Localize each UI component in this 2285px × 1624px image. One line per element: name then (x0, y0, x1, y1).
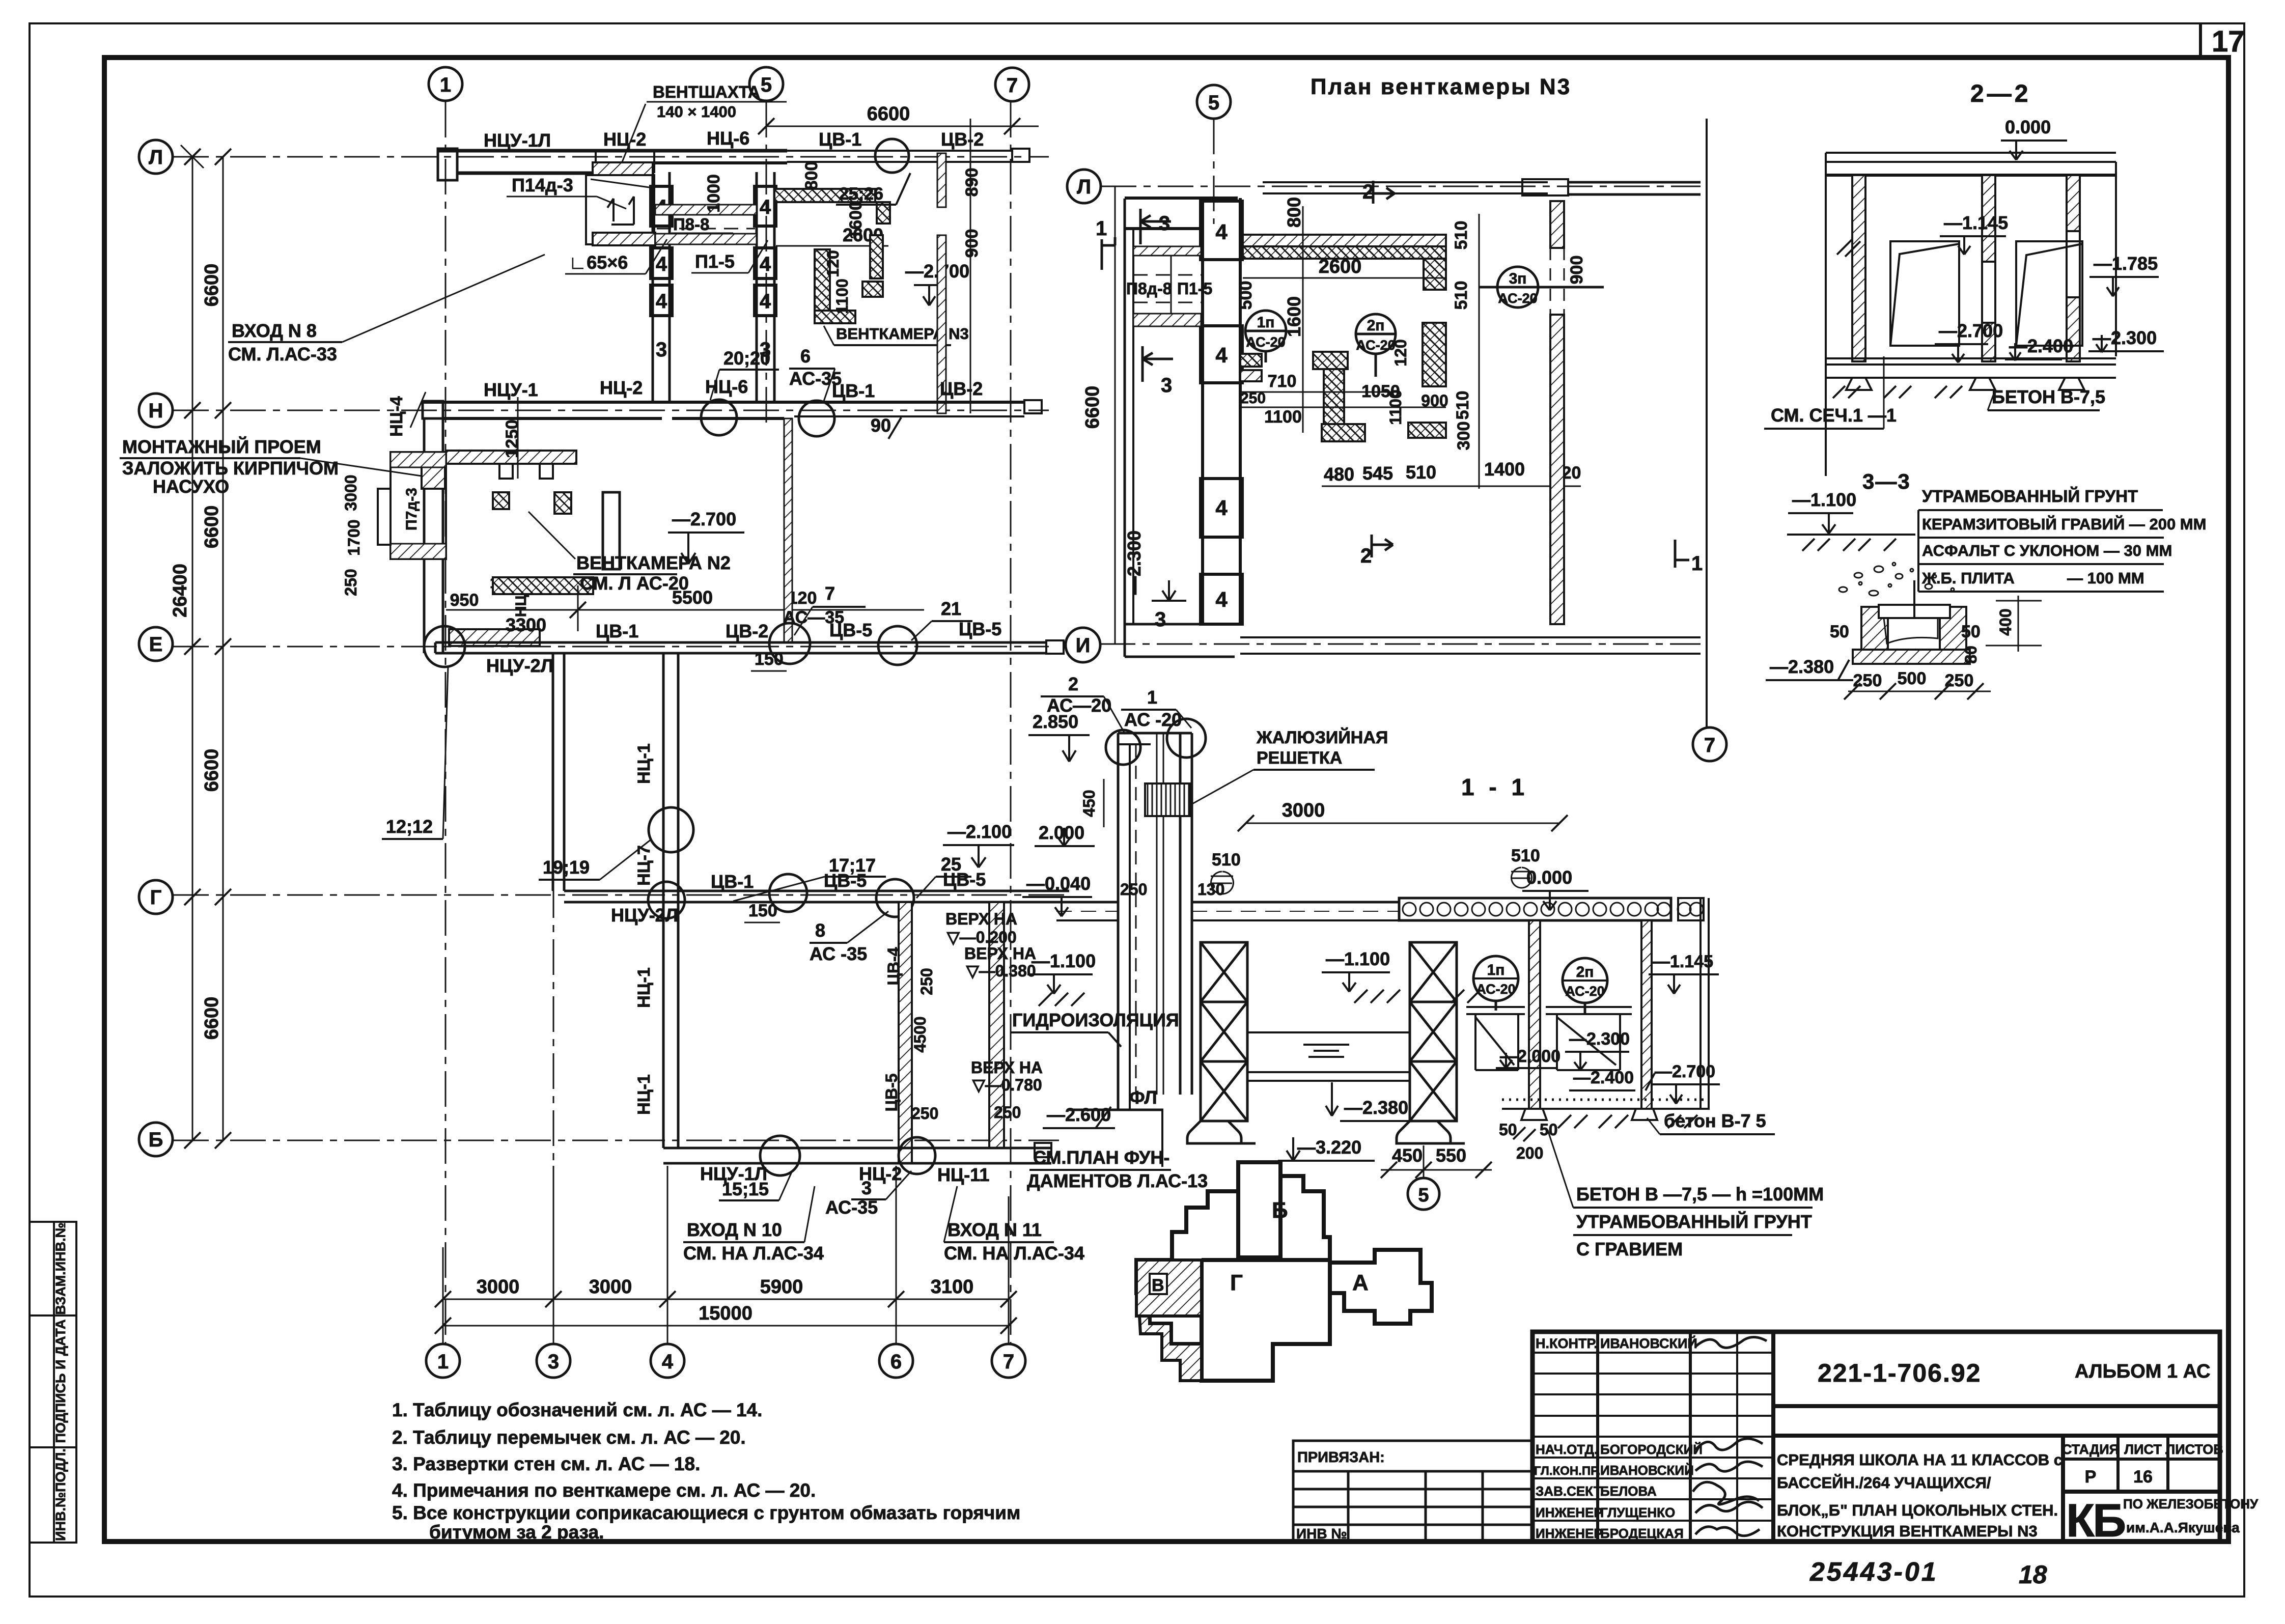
2 section marks (1373, 181, 1395, 204)
bottom dim row (1322, 486, 1581, 487)
svg-text:2—2: 2—2 (1970, 80, 2031, 107)
svg-text:19;19: 19;19 (543, 857, 590, 878)
svg-text:—2.400: —2.400 (1573, 1068, 1634, 1087)
ventkamera2 cluster (446, 451, 576, 464)
svg-text:80: 80 (1962, 646, 1980, 664)
svg-text:—3.220: —3.220 (1297, 1137, 1361, 1158)
svg-text:710: 710 (1268, 372, 1297, 391)
3000 dim (1246, 823, 1559, 824)
wall column with pilasters (1201, 198, 1242, 624)
svg-text:6600: 6600 (201, 506, 222, 549)
louver grille (1145, 783, 1190, 816)
svg-text:500: 500 (1898, 669, 1927, 688)
svg-text:200: 200 (1516, 1144, 1543, 1162)
svg-text:250: 250 (1120, 880, 1147, 899)
svg-text:5: 5 (761, 74, 772, 96)
svg-text:550: 550 (1436, 1145, 1466, 1166)
SECTION 2-2 (1764, 80, 2164, 476)
svg-text:900: 900 (1421, 391, 1448, 410)
svg-text:Г: Г (150, 886, 162, 909)
svg-text:МОНТАЖНЫЙ ПРОЕМ: МОНТАЖНЫЙ ПРОЕМ (122, 436, 321, 457)
svg-text:3: 3 (861, 1178, 872, 1198)
svg-text:НЦУ-1Л: НЦУ-1Л (484, 130, 551, 151)
TITLE BLOCK (1293, 1332, 2259, 1589)
svg-text:—2.700: —2.700 (1939, 320, 2003, 341)
svg-text:6: 6 (800, 346, 811, 367)
п circles (1245, 267, 1604, 354)
foundation detail (1853, 580, 1970, 664)
svg-text:АС—35: АС—35 (783, 608, 844, 627)
svg-text:1100: 1100 (1386, 389, 1405, 425)
svg-text:ВХОД N 10: ВХОД N 10 (687, 1219, 782, 1240)
svg-text:130: 130 (1197, 880, 1224, 899)
axis grid dash-dot lines (173, 102, 1069, 1344)
svg-text:3: 3 (1161, 374, 1172, 397)
ventkamera3 walls cluster (815, 249, 830, 311)
svg-text:16: 16 (2133, 1467, 2153, 1487)
svg-text:ВЕНТШАХТА: ВЕНТШАХТА (653, 82, 760, 101)
svg-text:—2.300: —2.300 (1569, 1029, 1630, 1049)
right wall (1550, 201, 1564, 248)
svg-text:СТАДИЯ: СТАДИЯ (2062, 1442, 2119, 1457)
svg-text:3300: 3300 (506, 614, 546, 635)
svg-text:510: 510 (1452, 221, 1471, 250)
bottom room walls (662, 902, 665, 1148)
svg-text:2. Таблицу перемычек см. л.: 2. Таблицу перемычек см. л. АС — 20. (392, 1427, 746, 1448)
wall row Е (435, 640, 1064, 654)
svg-text:—2.700: —2.700 (1655, 1062, 1715, 1081)
building outline Б block (1136, 1162, 1330, 1381)
svg-text:2: 2 (1068, 674, 1078, 694)
svg-text:510: 510 (1406, 462, 1436, 483)
svg-text:26400: 26400 (170, 564, 191, 618)
svg-text:50: 50 (1961, 622, 1981, 641)
svg-text:П14д-3: П14д-3 (512, 175, 573, 195)
svg-text:ЦВ-2: ЦВ-2 (941, 129, 984, 150)
left boundary wall (1124, 199, 1126, 657)
svg-text:НЦУ-2Л: НЦУ-2Л (611, 905, 678, 926)
SECTION 1-1 (1022, 674, 1824, 1259)
svg-text:ВЕРХ НА: ВЕРХ НА (971, 1058, 1043, 1077)
wall row Н (423, 400, 1042, 418)
svg-text:С ГРАВИЕМ: С ГРАВИЕМ (1576, 1239, 1683, 1259)
columns (1852, 175, 1865, 361)
svg-text:1: 1 (1147, 687, 1157, 708)
svg-text:НЦ-11: НЦ-11 (937, 1164, 989, 1185)
signatures squiggles (1693, 1337, 1767, 1535)
floor slabs (1056, 898, 1704, 920)
svg-text:25443-01: 25443-01 (1809, 1557, 1938, 1587)
А wing (1330, 1250, 1432, 1324)
svg-text:Л: Л (1077, 176, 1091, 198)
svg-text:—2.400: —2.400 (2009, 335, 2073, 356)
big double band (1243, 235, 1446, 246)
KEY PLAN (1136, 1162, 1432, 1381)
svg-text:ВЕРХ НА: ВЕРХ НА (964, 944, 1036, 963)
svg-text:5500: 5500 (672, 587, 713, 608)
svg-text:3: 3 (548, 1351, 559, 1373)
svg-text:В: В (1152, 1276, 1164, 1295)
svg-text:Б: Б (149, 1129, 163, 1151)
vertical dim 6600 (1114, 186, 1116, 644)
svg-text:50: 50 (1830, 622, 1849, 641)
svg-text:—1.100: —1.100 (1032, 950, 1096, 971)
svg-text:НЦ-1: НЦ-1 (634, 967, 654, 1008)
svg-text:17: 17 (2212, 25, 2245, 58)
svg-text:400: 400 (1996, 608, 2015, 635)
svg-text:2п: 2п (1576, 964, 1594, 981)
svg-text:АЛЬБОМ 1 АС: АЛЬБОМ 1 АС (2075, 1361, 2211, 1382)
svg-text:ЦВ-2: ЦВ-2 (726, 621, 768, 641)
svg-text:1п: 1п (1257, 314, 1275, 331)
svg-text:— 100 ММ: — 100 ММ (2067, 569, 2144, 587)
svg-text:6600: 6600 (1082, 386, 1103, 429)
svg-text:∟65×6: ∟65×6 (569, 252, 628, 273)
svg-text:1: 1 (1691, 552, 1703, 575)
dims under ventkamera2 (446, 609, 924, 611)
svg-text:120: 120 (1391, 339, 1410, 366)
svg-text:ГЛУЩЕНКО: ГЛУЩЕНКО (1600, 1505, 1675, 1520)
svg-text:—2.380: —2.380 (1770, 656, 1834, 677)
svg-text:СМ. СЕЧ.1 —1: СМ. СЕЧ.1 —1 (1771, 405, 1897, 426)
svg-text:—1.145: —1.145 (1944, 212, 2008, 233)
svg-text:4. Примечания по венткамере: 4. Примечания по венткамере см. л. АС — … (392, 1480, 816, 1501)
svg-text:▽—0.780: ▽—0.780 (972, 1076, 1042, 1094)
svg-text:АСФАЛЬТ С УКЛОНОМ — 30 М: АСФАЛЬТ С УКЛОНОМ — 30 ММ (1922, 542, 2172, 559)
svg-text:3000: 3000 (477, 1276, 520, 1298)
signature table rows (1532, 1352, 1773, 1354)
svg-text:ЗАЛОЖИТЬ КИРПИЧОМ: ЗАЛОЖИТЬ КИРПИЧОМ (122, 458, 339, 479)
svg-text:2: 2 (1360, 545, 1372, 567)
inner dims (1240, 391, 1395, 393)
svg-text:ИНЖЕНЕР: ИНЖЕНЕР (1536, 1505, 1603, 1520)
svg-text:120: 120 (824, 250, 842, 277)
svg-text:битумом за 2 раза.: битумом за 2 раза. (429, 1522, 604, 1543)
svg-text:УТРАМБОВАННЫЙ ГРУНТ: УТРАМБОВАННЫЙ ГРУНТ (1922, 486, 2138, 506)
svg-text:0.000: 0.000 (1526, 867, 1572, 888)
section marks left (1102, 209, 1173, 382)
svg-text:Н: Н (149, 400, 163, 422)
svg-text:250: 250 (911, 1104, 938, 1123)
axis lines (1100, 119, 1701, 644)
floor of tank room (1502, 1100, 1709, 1120)
tanks (1466, 1007, 1632, 1070)
svg-text:250: 250 (917, 968, 936, 995)
svg-text:Н.КОНТР.: Н.КОНТР. (1536, 1336, 1598, 1351)
scattered inner walls (493, 492, 509, 509)
svg-text:150: 150 (748, 901, 777, 920)
svg-text:—2.700: —2.700 (672, 509, 736, 529)
svg-text:ПО ЖЕЛЕЗОБЕТОНУ: ПО ЖЕЛЕЗОБЕТОНУ (2123, 1496, 2259, 1511)
right wall ЦВ-2 (937, 153, 946, 207)
svg-text:ЖАЛЮЗИЙНАЯ: ЖАЛЮЗИЙНАЯ (1256, 727, 1388, 747)
svg-text:4: 4 (760, 290, 771, 313)
svg-text:50: 50 (1540, 1121, 1558, 1139)
svg-text:6600: 6600 (201, 997, 222, 1040)
svg-text:СМ. НА Л.АС-34: СМ. НА Л.АС-34 (683, 1243, 824, 1264)
svg-text:2п: 2п (1367, 317, 1385, 334)
svg-text:—2.380: —2.380 (1344, 1097, 1408, 1118)
svg-text:7: 7 (825, 583, 835, 604)
svg-text:—0.040: —0.040 (1026, 873, 1091, 894)
page number box 17 (2199, 23, 2202, 58)
svg-text:4: 4 (662, 1351, 674, 1373)
svg-text:18: 18 (2019, 1560, 2047, 1589)
svg-text:4500: 4500 (911, 1016, 929, 1052)
svg-text:ИВАНОВСКИЙ: ИВАНОВСКИЙ (1600, 1335, 1697, 1351)
axis circles left (139, 140, 173, 1156)
svg-text:6600: 6600 (867, 103, 910, 125)
svg-text:НЦ-4: НЦ-4 (387, 396, 406, 437)
svg-text:НЦ-1: НЦ-1 (634, 743, 654, 784)
svg-text:АС-20: АС-20 (1246, 334, 1285, 350)
svg-text:НЦ-7: НЦ-7 (634, 845, 654, 886)
svg-text:90: 90 (871, 415, 891, 436)
svg-text:1: 1 (440, 74, 451, 96)
svg-text:АС-35: АС-35 (825, 1197, 878, 1218)
svg-text:1. Таблицу обозначений см. л.: 1. Таблицу обозначений см. л. АС — 14. (392, 1399, 762, 1420)
svg-text:140 × 1400: 140 × 1400 (657, 103, 736, 121)
svg-text:ВЕРХ НА: ВЕРХ НА (945, 910, 1017, 928)
duct shaft (1118, 733, 1192, 1110)
svg-text:800: 800 (1284, 197, 1304, 228)
svg-text:3. Развертки стен см. л. АС: 3. Развертки стен см. л. АС — 18. (392, 1453, 700, 1474)
svg-text:ВХОД N 11: ВХОД N 11 (948, 1219, 1042, 1240)
svg-text:ЦВ-5: ЦВ-5 (882, 1074, 901, 1112)
svg-text:480: 480 (1324, 464, 1354, 485)
svg-text:300: 300 (1454, 422, 1473, 451)
wall row Г (564, 891, 1069, 902)
svg-text:3: 3 (1159, 212, 1170, 235)
svg-text:План венткамеры N3: План венткамеры N3 (1311, 74, 1571, 99)
svg-text:КОНСТРУКЦИЯ ВЕНТКАМЕРЫ N3: КОНСТРУКЦИЯ ВЕНТКАМЕРЫ N3 (1777, 1522, 2038, 1540)
svg-text:—2.300: —2.300 (1124, 530, 1145, 595)
svg-text:3: 3 (656, 339, 667, 361)
svg-text:890: 890 (962, 168, 982, 197)
left stamp strip (31, 1222, 76, 1543)
svg-text:ВХОД N 8: ВХОД N 8 (232, 320, 317, 341)
svg-text:НЦ-2: НЦ-2 (603, 129, 646, 150)
svg-text:ИНВ.№ПОДЛ.: ИНВ.№ПОДЛ. (53, 1448, 68, 1541)
svg-text:250: 250 (342, 569, 360, 596)
svg-text:4: 4 (1215, 343, 1228, 367)
svg-text:1: 1 (437, 1351, 449, 1373)
svg-text:▽—0.380: ▽—0.380 (966, 962, 1036, 980)
svg-text:АС -20: АС -20 (1124, 709, 1182, 730)
svg-text:НЦУ-1: НЦУ-1 (484, 379, 538, 400)
svg-text:12;12: 12;12 (386, 816, 433, 837)
top wall band (1125, 179, 1701, 229)
small room П7д-3 (391, 452, 446, 559)
dots sprinkle (1839, 563, 1954, 596)
wall vertical from Н to Е at x1540 (784, 418, 792, 642)
svg-text:50: 50 (1499, 1121, 1517, 1139)
left vertical dimension lines (181, 145, 223, 1140)
svg-text:ВЗАМ.ИНВ.№: ВЗАМ.ИНВ.№ (53, 1222, 68, 1315)
svg-text:НАЧ.ОТД.: НАЧ.ОТД. (1536, 1442, 1598, 1457)
svg-text:4: 4 (656, 290, 667, 313)
svg-text:4: 4 (1215, 496, 1228, 520)
axis circles bottom (426, 1344, 1025, 1378)
svg-text:ФЛ: ФЛ (1129, 1087, 1157, 1108)
svg-text:3: 3 (1155, 608, 1166, 631)
svg-text:ГЛ.КОН.ПР.: ГЛ.КОН.ПР. (1534, 1464, 1600, 1478)
svg-text:1250: 1250 (503, 419, 522, 458)
svg-text:2600: 2600 (1319, 256, 1362, 277)
main area lines (1773, 1404, 2220, 1408)
basin between columns (1247, 1032, 1410, 1081)
bottom dimension lines (443, 1166, 1009, 1344)
svg-text:900: 900 (1567, 256, 1586, 285)
svg-text:АС-20: АС-20 (1498, 291, 1537, 306)
svg-text:Л: Л (149, 146, 163, 169)
svg-text:П8д-8: П8д-8 (1126, 279, 1172, 298)
svg-text:6: 6 (890, 1351, 902, 1373)
svg-text:ДАМЕНТОВ Л.АС-13: ДАМЕНТОВ Л.АС-13 (1027, 1170, 1208, 1191)
wall B x1486-1521 (756, 172, 758, 402)
svg-text:3000: 3000 (342, 474, 360, 511)
foundation slab ФЛ (1069, 1109, 1163, 1111)
svg-text:АС -35: АС -35 (810, 943, 867, 964)
svg-text:Р: Р (2085, 1467, 2097, 1487)
Г inner rectangle (1202, 1258, 1330, 1262)
svg-text:3—3: 3—3 (1862, 469, 1911, 493)
left wall Н-Е and montage opening (423, 418, 426, 653)
svg-text:им.А.А.Якушева: им.А.А.Якушева (2126, 1520, 2240, 1535)
svg-text:НАСУХО: НАСУХО (153, 476, 229, 497)
svg-text:5. Все конструкции соприкаса: 5. Все конструкции соприкасающиеся с гру… (392, 1502, 1020, 1523)
svg-text:НЦ-2: НЦ-2 (600, 377, 643, 398)
far right marks (1675, 540, 1689, 568)
svg-text:6600: 6600 (201, 749, 222, 792)
svg-text:ЦВ-1: ЦВ-1 (596, 621, 638, 641)
svg-text:950: 950 (450, 591, 479, 610)
right part: tank room walls (1529, 898, 1709, 1110)
VENT PLAN N3 (1066, 74, 1726, 761)
svg-text:АС-20: АС-20 (1356, 338, 1395, 353)
detail circle 25;26 on axis Л (875, 139, 909, 173)
svg-text:ИВАНОВСКИЙ: ИВАНОВСКИЙ (1600, 1463, 1694, 1478)
svg-text:Б: Б (1272, 1198, 1288, 1223)
svg-text:900: 900 (962, 229, 982, 258)
svg-text:П8-8: П8-8 (673, 215, 709, 234)
MAIN PLAN (120, 67, 1179, 1378)
svg-text:4: 4 (656, 253, 667, 275)
svg-text:150: 150 (755, 650, 784, 669)
svg-text:5: 5 (1418, 1185, 1429, 1206)
svg-text:250: 250 (1240, 390, 1266, 407)
svg-text:АС-20: АС-20 (1476, 982, 1515, 997)
svg-text:2.850: 2.850 (1033, 711, 1078, 732)
svg-text:545: 545 (1362, 463, 1393, 484)
svg-text:—2.600: —2.600 (1047, 1104, 1111, 1125)
svg-text:2.000: 2.000 (1039, 822, 1084, 843)
svg-text:КБ: КБ (2066, 1495, 2125, 1547)
svg-text:ЗАВ.СЕКТ.: ЗАВ.СЕКТ. (1536, 1483, 1604, 1499)
svg-text:СМ. НА Л.АС-34: СМ. НА Л.АС-34 (944, 1243, 1084, 1264)
svg-text:—2.100: —2.100 (948, 821, 1012, 842)
svg-text:5900: 5900 (760, 1276, 803, 1298)
svg-text:6600: 6600 (201, 264, 222, 307)
svg-text:ЛИСТ: ЛИСТ (2124, 1442, 2162, 1457)
svg-text:3000: 3000 (1282, 800, 1325, 821)
svg-text:1100: 1100 (1264, 407, 1302, 427)
svg-text:▽—0.200: ▽—0.200 (946, 928, 1017, 946)
svg-text:НЦУ-2Л: НЦУ-2Л (486, 655, 553, 676)
svg-text:Е: Е (149, 633, 163, 656)
vent shaft cluster between Л and Н (651, 172, 776, 402)
svg-text:25: 25 (941, 854, 961, 875)
privyazan table (1293, 1441, 1532, 1542)
svg-text:—1.100: —1.100 (1792, 489, 1856, 510)
bottom И wall (1125, 624, 1701, 657)
450 550 dim + circle 5 (1381, 1169, 1492, 1171)
svg-text:3000: 3000 (589, 1276, 632, 1298)
svg-text:250: 250 (994, 1103, 1021, 1122)
wall row Л (438, 149, 1029, 180)
svg-text:5: 5 (1208, 92, 1219, 114)
svg-text:П1-5: П1-5 (695, 251, 735, 272)
svg-text:ЦВ-1: ЦВ-1 (819, 129, 861, 150)
svg-text:СМ. Л.АС-33: СМ. Л.АС-33 (228, 344, 337, 365)
svg-text:П7д-3: П7д-3 (403, 488, 420, 530)
svg-text:БАССЕЙН./264 УЧАЩИХСЯ/: БАССЕЙН./264 УЧАЩИХСЯ/ (1777, 1473, 1991, 1492)
svg-text:БЛОК„Б" ПЛАН ЦОКОЛЬНЫХ СТЕН.: БЛОК„Б" ПЛАН ЦОКОЛЬНЫХ СТЕН. (1777, 1501, 2058, 1519)
NOTES (392, 1399, 1020, 1543)
svg-text:20;20: 20;20 (723, 348, 770, 369)
svg-text:ЦВ-1: ЦВ-1 (711, 871, 754, 892)
svg-text:221-1-706.92: 221-1-706.92 (1818, 1359, 1981, 1387)
svg-text:БЕТОН В-7,5: БЕТОН В-7,5 (1992, 386, 2105, 407)
svg-text:А: А (1352, 1270, 1369, 1295)
svg-text:1 - 1: 1 - 1 (1461, 774, 1528, 800)
svg-text:бетон В-7 5: бетон В-7 5 (1664, 1110, 1766, 1131)
shaft room left with hatch (593, 162, 653, 175)
svg-text:ПОДПИСЬ И ДАТА: ПОДПИСЬ И ДАТА (53, 1319, 68, 1443)
walls Е to Г (552, 653, 554, 891)
svg-text:НЦ-1: НЦ-1 (634, 1074, 654, 1115)
svg-text:1п: 1п (1487, 962, 1505, 978)
middle cluster pieces (1240, 354, 1262, 367)
svg-text:Г: Г (1230, 1270, 1243, 1295)
signature table verticals (1596, 1332, 1599, 1542)
svg-text:1400: 1400 (1484, 459, 1525, 480)
crosshatch band right of wall B (774, 189, 875, 202)
inner notch near Б (1238, 1162, 1280, 1257)
svg-text:СМ.ПЛАН ФУН-: СМ.ПЛАН ФУН- (1033, 1147, 1169, 1168)
svg-text:1: 1 (1096, 217, 1107, 240)
svg-text:510: 510 (1212, 850, 1241, 870)
svg-text:1700: 1700 (345, 519, 363, 555)
П8-8 band (655, 205, 757, 215)
svg-text:ЛИСТОВ: ЛИСТОВ (2165, 1442, 2223, 1457)
svg-text:450: 450 (1080, 790, 1098, 817)
svg-text:4: 4 (1215, 220, 1228, 244)
svg-text:500: 500 (1236, 281, 1256, 310)
svg-text:СРЕДНЯЯ ШКОЛА НА 11 КЛАССОВ с: СРЕДНЯЯ ШКОЛА НА 11 КЛАССОВ с (1777, 1451, 2063, 1469)
svg-text:КЕРАМЗИТОВЫЙ ГРАВИЙ — 200 ММ: КЕРАМЗИТОВЫЙ ГРАВИЙ — 200 ММ (1922, 515, 2206, 533)
top dim 6600 between 5 and 7 (766, 126, 1039, 127)
svg-text:4: 4 (760, 253, 771, 275)
svg-text:15000: 15000 (699, 1303, 753, 1324)
svg-text:БОГОРОДСКИЙ: БОГОРОДСКИЙ (1600, 1442, 1703, 1457)
svg-text:1000: 1000 (704, 174, 723, 213)
svg-text:АС-20: АС-20 (1565, 984, 1604, 999)
svg-text:—1.145: —1.145 (1653, 952, 1713, 971)
svg-text:4: 4 (1215, 587, 1228, 611)
svg-text:БЕТОН В —7,5 — h =100ММ: БЕТОН В —7,5 — h =100ММ (1576, 1184, 1824, 1205)
svg-text:ЦВ-2: ЦВ-2 (940, 378, 983, 399)
